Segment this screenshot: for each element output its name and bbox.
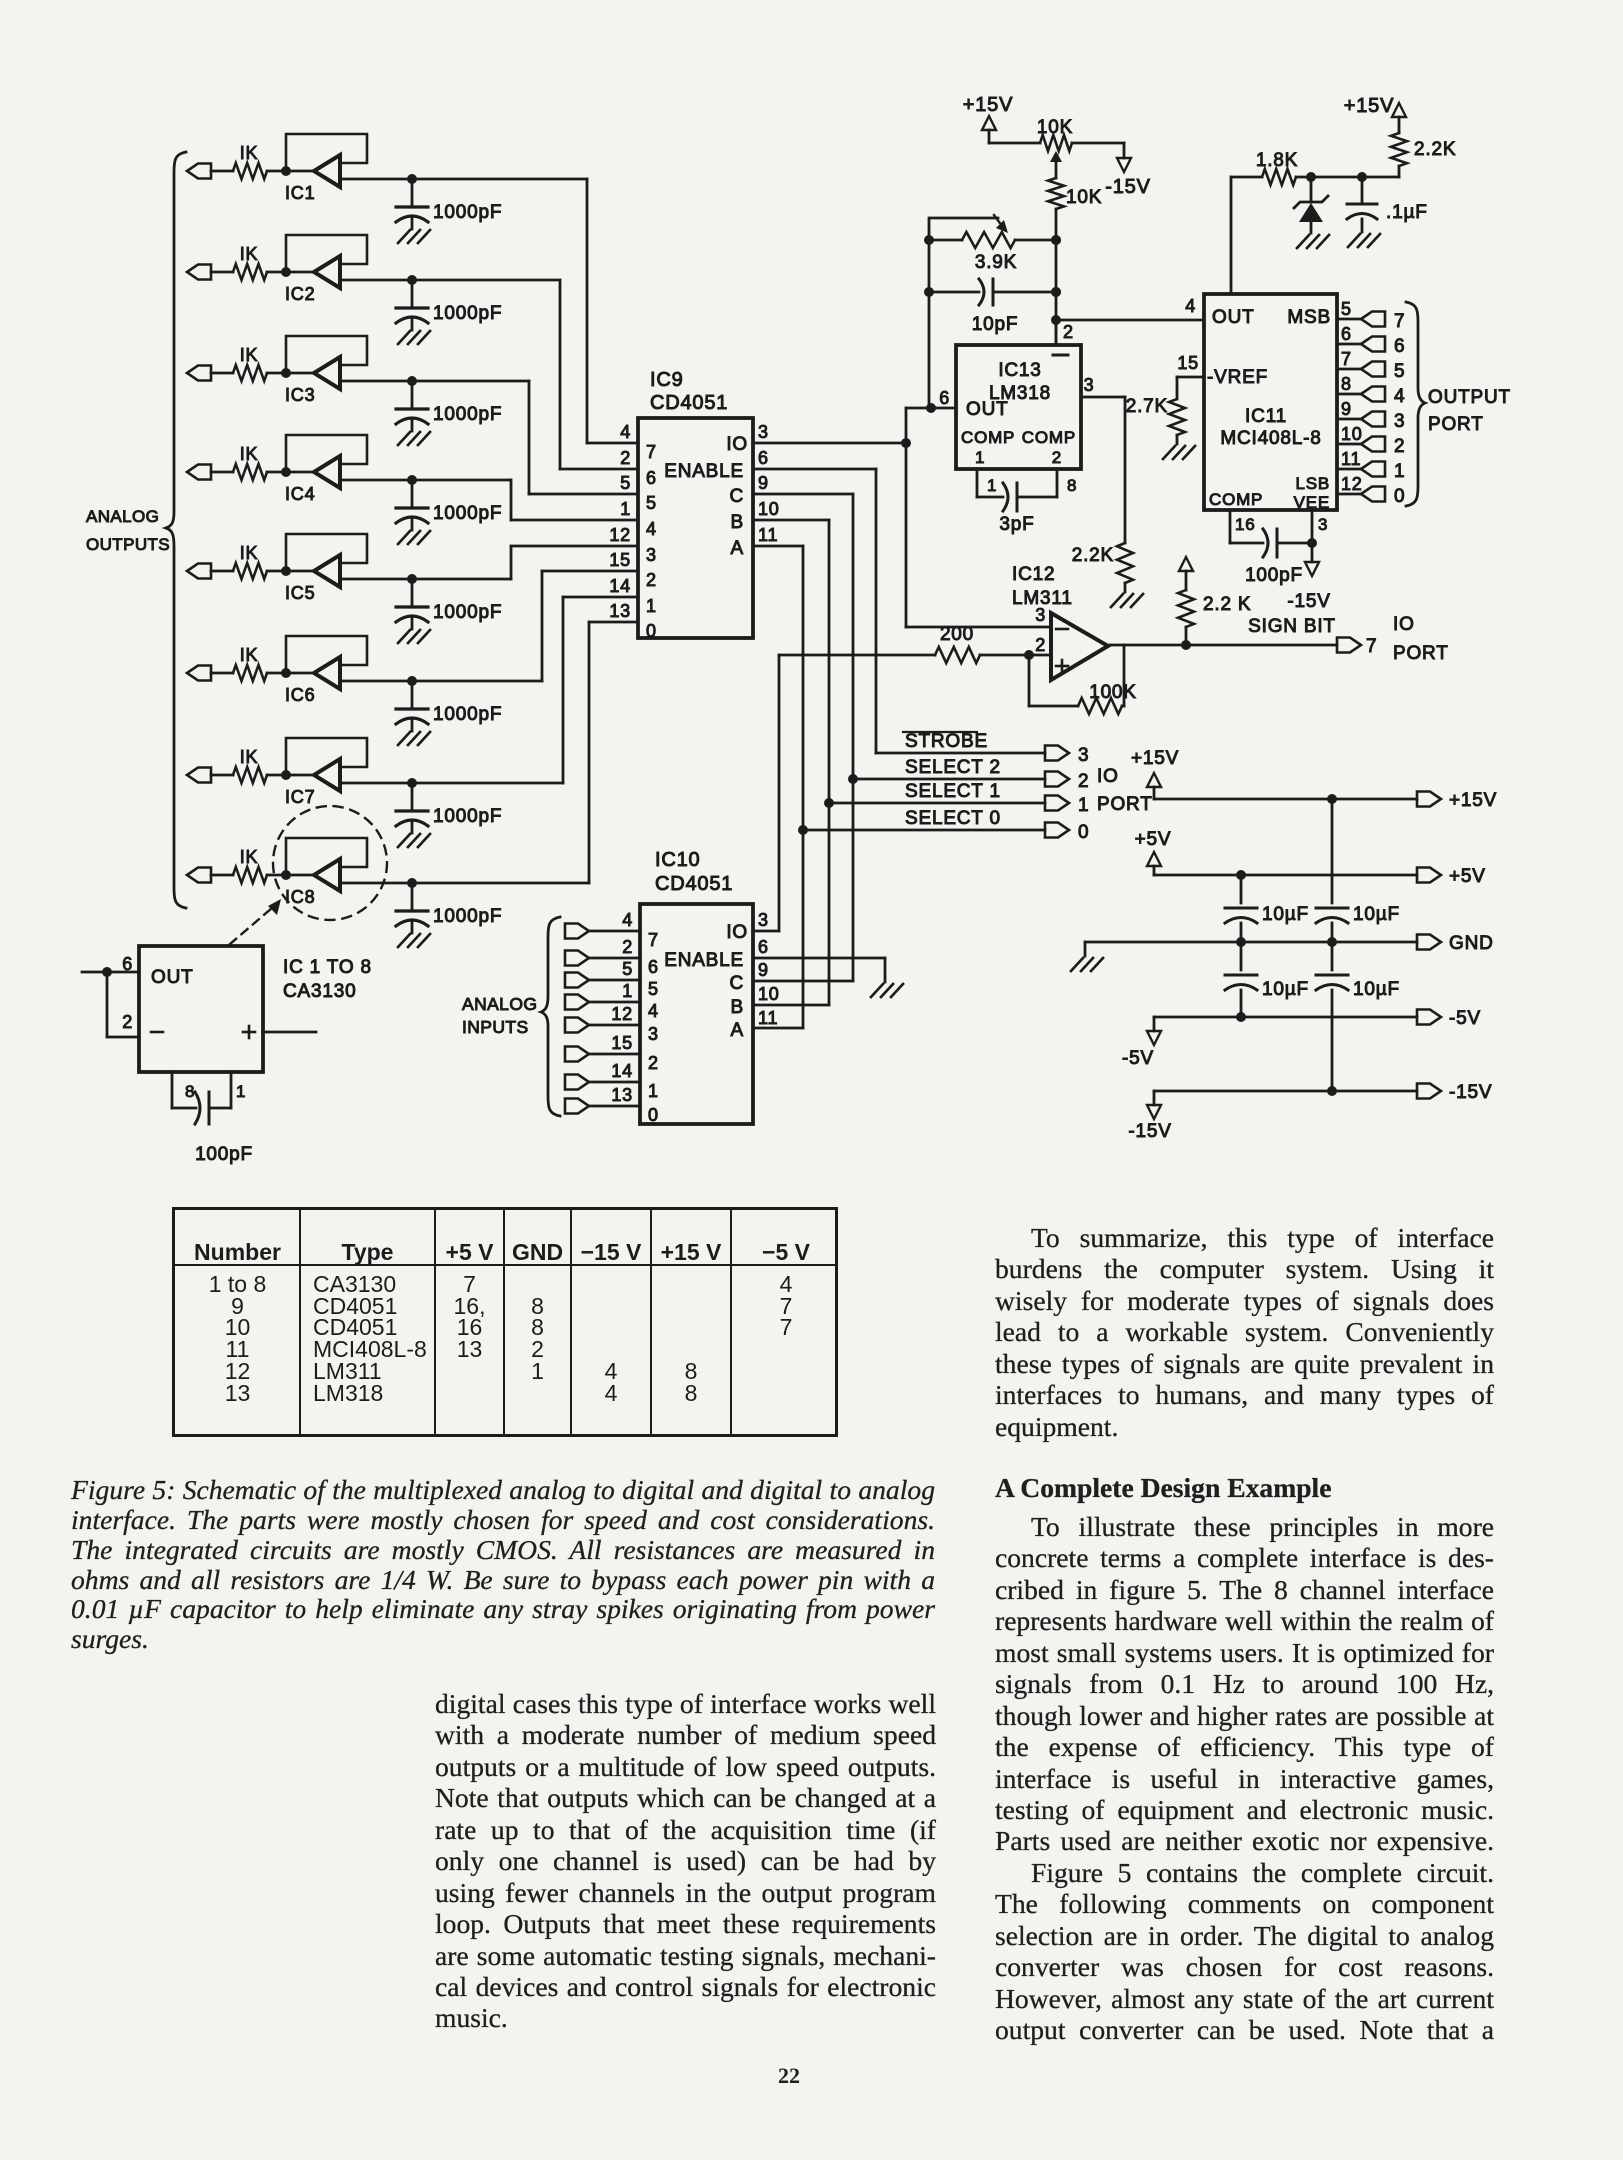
svg-text:10µF: 10µF — [1353, 904, 1400, 925]
svg-text:1: 1 — [1394, 461, 1405, 482]
svg-text:1000pF: 1000pF — [433, 806, 502, 827]
svg-text:OUTPUTS: OUTPUTS — [86, 535, 170, 554]
svg-text:2: 2 — [1063, 322, 1074, 342]
svg-text:12: 12 — [611, 1004, 633, 1024]
svg-text:2: 2 — [1394, 436, 1405, 457]
svg-text:10: 10 — [1341, 424, 1363, 444]
svg-text:6: 6 — [646, 468, 657, 488]
svg-text:7: 7 — [648, 930, 659, 950]
svg-text:2: 2 — [620, 448, 631, 468]
svg-text:3: 3 — [1084, 375, 1095, 395]
svg-text:2.2K: 2.2K — [1414, 139, 1456, 160]
svg-text:COMP: COMP — [961, 428, 1015, 447]
svg-text:3pF: 3pF — [999, 514, 1034, 535]
svg-text:C: C — [729, 973, 744, 994]
svg-text:-15V: -15V — [1128, 1121, 1171, 1142]
svg-text:2: 2 — [648, 1053, 659, 1073]
svg-text:3: 3 — [1078, 745, 1089, 766]
svg-text:OUT: OUT — [1212, 307, 1255, 328]
svg-text:IK: IK — [240, 244, 259, 264]
svg-text:MSB: MSB — [1287, 307, 1331, 328]
svg-text:IC8: IC8 — [285, 887, 315, 907]
svg-text:10: 10 — [758, 984, 780, 1004]
svg-text:CD4051: CD4051 — [655, 873, 733, 895]
svg-text:+5V: +5V — [1135, 829, 1172, 850]
svg-text:IC6: IC6 — [285, 685, 315, 705]
svg-text:8: 8 — [1341, 374, 1352, 394]
svg-text:16: 16 — [1235, 515, 1256, 534]
svg-text:7: 7 — [1394, 311, 1405, 332]
svg-text:SELECT 1: SELECT 1 — [905, 781, 1001, 802]
svg-text:IC10: IC10 — [655, 849, 700, 871]
svg-text:15: 15 — [609, 550, 631, 570]
svg-text:10pF: 10pF — [972, 314, 1019, 335]
svg-text:2: 2 — [1078, 771, 1089, 792]
svg-text:1: 1 — [975, 448, 985, 467]
svg-text:+15V: +15V — [1131, 748, 1179, 769]
svg-text:4: 4 — [622, 910, 633, 930]
svg-text:INPUTS: INPUTS — [462, 1017, 529, 1037]
svg-text:LM311: LM311 — [1012, 588, 1073, 609]
svg-text:2: 2 — [122, 1012, 133, 1032]
svg-text:2.7K: 2.7K — [1126, 396, 1168, 417]
svg-text:10µF: 10µF — [1262, 979, 1309, 1000]
svg-text:1: 1 — [1078, 795, 1089, 816]
svg-text:IC13: IC13 — [998, 360, 1041, 381]
svg-text:9: 9 — [758, 473, 769, 493]
svg-text:13: 13 — [611, 1085, 633, 1105]
svg-text:0: 0 — [646, 621, 657, 641]
svg-text:5: 5 — [646, 493, 657, 513]
svg-text:6: 6 — [648, 957, 659, 977]
svg-text:3: 3 — [758, 422, 769, 442]
svg-text:STROBE: STROBE — [905, 731, 988, 752]
svg-text:12: 12 — [609, 525, 631, 545]
svg-text:5: 5 — [620, 473, 631, 493]
svg-text:ANALOG: ANALOG — [462, 994, 537, 1014]
svg-text:IC3: IC3 — [285, 385, 315, 405]
svg-text:10µF: 10µF — [1353, 979, 1400, 1000]
svg-text:-VREF: -VREF — [1207, 367, 1268, 388]
svg-text:-5V: -5V — [1449, 1008, 1481, 1029]
svg-text:8: 8 — [1067, 476, 1077, 495]
svg-text:+15V: +15V — [1449, 790, 1497, 811]
svg-text:IC12: IC12 — [1012, 564, 1055, 585]
svg-text:-15V: -15V — [1287, 591, 1330, 612]
svg-text:2.2 K: 2.2 K — [1203, 594, 1251, 615]
svg-text:IC4: IC4 — [285, 484, 315, 504]
svg-text:15: 15 — [1177, 353, 1199, 373]
svg-text:10µF: 10µF — [1262, 904, 1309, 925]
svg-text:ANALOG: ANALOG — [86, 507, 159, 526]
svg-text:ENABLE: ENABLE — [664, 461, 744, 482]
svg-text:13: 13 — [609, 601, 631, 621]
svg-text:+15V: +15V — [963, 94, 1013, 116]
svg-text:IO: IO — [726, 922, 748, 943]
svg-text:1: 1 — [620, 499, 631, 519]
svg-text:6: 6 — [1394, 336, 1405, 357]
svg-text:OUT: OUT — [151, 967, 194, 988]
svg-text:IK: IK — [240, 543, 259, 563]
svg-text:7: 7 — [1341, 349, 1352, 369]
svg-text:6: 6 — [758, 937, 769, 957]
svg-text:IC1: IC1 — [285, 183, 315, 203]
svg-text:IO: IO — [726, 434, 748, 455]
svg-text:6: 6 — [1341, 324, 1352, 344]
svg-text:1: 1 — [236, 1082, 246, 1101]
svg-text:2: 2 — [1052, 448, 1062, 467]
svg-text:A: A — [731, 538, 744, 559]
svg-text:3: 3 — [646, 545, 657, 565]
svg-text:IO: IO — [1393, 614, 1415, 635]
svg-text:1: 1 — [646, 596, 657, 616]
svg-text:3: 3 — [1394, 411, 1405, 432]
svg-text:LSB: LSB — [1295, 474, 1330, 493]
svg-text:-5V: -5V — [1122, 1048, 1154, 1069]
svg-text:5: 5 — [1341, 299, 1352, 319]
svg-text:IK: IK — [240, 645, 259, 665]
svg-text:OUT: OUT — [966, 399, 1009, 420]
svg-text:12: 12 — [1341, 474, 1363, 494]
svg-text:5: 5 — [622, 959, 633, 979]
svg-text:1000pF: 1000pF — [433, 303, 502, 324]
svg-text:1000pF: 1000pF — [433, 906, 502, 927]
svg-text:10K: 10K — [1037, 117, 1073, 138]
svg-text:8: 8 — [185, 1082, 195, 1101]
svg-text:11: 11 — [1341, 449, 1361, 469]
svg-text:2: 2 — [646, 570, 657, 590]
svg-text:SIGN BIT: SIGN BIT — [1248, 616, 1336, 637]
svg-text:COMP: COMP — [1022, 428, 1076, 447]
svg-text:7: 7 — [1366, 636, 1377, 657]
svg-text:15: 15 — [611, 1033, 633, 1053]
svg-text:1000pF: 1000pF — [433, 602, 502, 623]
svg-text:B: B — [731, 512, 744, 533]
svg-text:10: 10 — [758, 499, 780, 519]
svg-text:B: B — [731, 997, 744, 1018]
svg-text:GND: GND — [1449, 933, 1494, 954]
svg-text:IC 1 TO 8: IC 1 TO 8 — [283, 957, 372, 978]
svg-text:0: 0 — [1078, 822, 1089, 843]
svg-text:IK: IK — [240, 143, 259, 163]
svg-text:IC5: IC5 — [285, 583, 315, 603]
svg-text:1: 1 — [987, 476, 997, 495]
svg-text:PORT: PORT — [1428, 414, 1484, 435]
svg-text:SELECT 2: SELECT 2 — [905, 757, 1001, 778]
svg-text:MCI408L-8: MCI408L-8 — [1220, 428, 1321, 449]
svg-text:0: 0 — [648, 1105, 659, 1125]
svg-text:3: 3 — [1318, 515, 1328, 534]
svg-text:IK: IK — [240, 847, 259, 867]
svg-text:9: 9 — [758, 960, 769, 980]
svg-text:10K: 10K — [1066, 187, 1102, 208]
svg-text:+5V: +5V — [1449, 866, 1486, 887]
svg-text:IC2: IC2 — [285, 284, 315, 304]
svg-text:2: 2 — [622, 937, 633, 957]
svg-text:4: 4 — [646, 519, 657, 539]
svg-text:5: 5 — [1394, 361, 1405, 382]
svg-text:11: 11 — [758, 525, 778, 545]
svg-text:4: 4 — [620, 422, 631, 442]
svg-text:11: 11 — [758, 1008, 778, 1028]
svg-text:A: A — [731, 1020, 744, 1041]
svg-text:C: C — [729, 486, 744, 507]
svg-text:2: 2 — [1035, 635, 1046, 655]
svg-text:CA3130: CA3130 — [283, 981, 356, 1002]
svg-text:4: 4 — [1394, 386, 1405, 407]
svg-text:9: 9 — [1341, 399, 1352, 419]
svg-text:ENABLE: ENABLE — [664, 950, 744, 971]
svg-text:3.9K: 3.9K — [975, 252, 1017, 273]
svg-text:1.8K: 1.8K — [1256, 150, 1298, 171]
svg-text:3: 3 — [758, 910, 769, 930]
svg-text:1000pF: 1000pF — [433, 404, 502, 425]
svg-text:14: 14 — [611, 1061, 633, 1081]
svg-text:IC7: IC7 — [285, 787, 315, 807]
svg-text:COMP: COMP — [1209, 490, 1263, 509]
svg-text:4: 4 — [648, 1001, 659, 1021]
svg-text:IK: IK — [240, 345, 259, 365]
svg-text:PORT: PORT — [1393, 643, 1449, 664]
svg-text:SELECT 0: SELECT 0 — [905, 808, 1001, 829]
svg-text:1: 1 — [622, 981, 633, 1001]
svg-text:1: 1 — [648, 1081, 659, 1101]
svg-text:3: 3 — [648, 1024, 659, 1044]
svg-text:IK: IK — [240, 444, 259, 464]
svg-text:0: 0 — [1394, 486, 1405, 507]
svg-text:IK: IK — [240, 747, 259, 767]
svg-text:CD4051: CD4051 — [650, 392, 728, 414]
svg-text:1000pF: 1000pF — [433, 202, 502, 223]
svg-text:.1µF: .1µF — [1386, 202, 1428, 223]
svg-text:6: 6 — [758, 448, 769, 468]
svg-text:OUTPUT: OUTPUT — [1428, 387, 1511, 408]
svg-text:IC9: IC9 — [650, 369, 684, 391]
svg-text:4: 4 — [1185, 296, 1196, 316]
svg-text:5: 5 — [648, 979, 659, 999]
svg-text:2.2K: 2.2K — [1072, 545, 1114, 566]
svg-text:100pF: 100pF — [1245, 565, 1303, 586]
svg-text:1000pF: 1000pF — [433, 704, 502, 725]
svg-text:100pF: 100pF — [195, 1144, 253, 1165]
svg-text:IC11: IC11 — [1245, 406, 1287, 427]
svg-text:1000pF: 1000pF — [433, 503, 502, 524]
svg-text:6: 6 — [939, 388, 950, 408]
svg-text:-15V: -15V — [1449, 1082, 1492, 1103]
svg-text:7: 7 — [646, 442, 657, 462]
svg-text:100K: 100K — [1089, 682, 1137, 703]
svg-text:-15V: -15V — [1105, 176, 1150, 198]
svg-text:IO: IO — [1097, 766, 1119, 787]
svg-text:PORT: PORT — [1097, 794, 1153, 815]
svg-text:14: 14 — [609, 576, 631, 596]
svg-text:+15V: +15V — [1344, 95, 1394, 117]
